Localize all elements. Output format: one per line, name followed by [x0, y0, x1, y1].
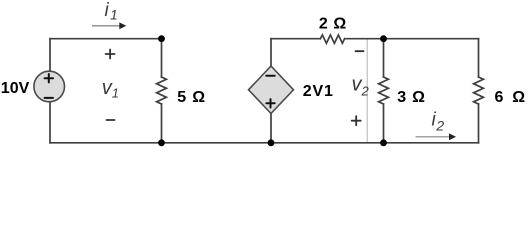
svg-text:2 Ω: 2 Ω [319, 16, 347, 33]
svg-text:2V1: 2V1 [303, 83, 334, 100]
svg-text:10V: 10V [1, 80, 30, 97]
svg-text:6 Ω: 6 Ω [495, 89, 528, 106]
svg-text:5 Ω: 5 Ω [177, 89, 206, 106]
svg-text:3 Ω: 3 Ω [397, 89, 426, 106]
